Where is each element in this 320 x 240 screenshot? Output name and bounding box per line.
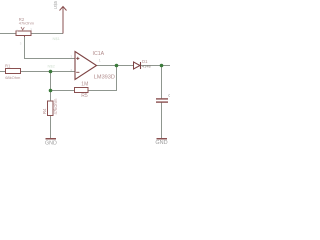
- svg-text:1M: 1M: [81, 82, 88, 88]
- svg-text:N$2: N$2: [48, 64, 56, 69]
- right ground symbol: [155, 138, 167, 146]
- R4 name label (rotated): [42, 108, 47, 114]
- resistor R1 body: [6, 69, 21, 74]
- svg-text:4148: 4148: [142, 63, 151, 68]
- svg-text:47kOhm: 47kOhm: [19, 21, 35, 26]
- svg-text:3: 3: [71, 55, 73, 59]
- op-amp pin 2 number: [71, 68, 73, 72]
- svg-text:N$1: N$1: [53, 36, 61, 41]
- diode D1: [134, 62, 141, 69]
- svg-text:1: 1: [99, 59, 101, 63]
- R1 value label 68kOhm: [5, 75, 21, 80]
- op-amp pin 3 number: [71, 55, 73, 59]
- svg-text:C6: C6: [168, 93, 170, 98]
- junction node at IN- / R1 / R5 net: [49, 70, 53, 74]
- R5 value label 1M: [81, 82, 88, 88]
- supply symbol U$5 (VCC arrow): [53, 0, 67, 33]
- wire: node down to R4 top terminal: [50, 91, 52, 102]
- junction node at R5/R4 tee: [49, 89, 53, 93]
- potentiometer R2 body: [16, 27, 31, 37]
- svg-text:3: 3: [30, 28, 32, 32]
- R2 pin 3 number: [30, 28, 32, 32]
- net label N$2 on IN- net: [48, 64, 56, 69]
- svg-text:U$5: U$5: [53, 0, 58, 9]
- R5 name label: [81, 93, 88, 99]
- IC1A value label LM393D: [94, 75, 115, 81]
- R4 value label 47kOhm (rotated): [53, 98, 58, 114]
- wire: vertical from IN- node down to R5/R4 node: [50, 72, 52, 91]
- IC1A name label: [93, 51, 105, 57]
- wire: op-amp output to diode anode: [97, 65, 134, 67]
- D1 name label: [142, 59, 148, 64]
- wire: R2 right terminal to VCC arrow: [31, 33, 63, 35]
- svg-text:R4: R4: [42, 108, 47, 114]
- op-amp IC1A triangle: [75, 52, 97, 80]
- wire: output node down to capacitor top plate: [161, 66, 163, 99]
- svg-text:47kOhm: 47kOhm: [53, 98, 58, 114]
- svg-text:IC1A: IC1A: [93, 51, 105, 57]
- capacitor name label (clipped at edge): [168, 93, 174, 98]
- svg-text:LM393D: LM393D: [94, 75, 115, 81]
- svg-text:R5: R5: [81, 93, 88, 99]
- op-amp output pin 1 number: [99, 59, 101, 63]
- net label N$1 on VCC wire: [53, 36, 61, 41]
- junction node at diode cathode / capacitor: [160, 64, 164, 68]
- svg-text:GND: GND: [45, 141, 57, 147]
- resistor R5 body: [75, 88, 89, 93]
- R2 wiper pin 2 number: [20, 42, 22, 46]
- R2 name label: [19, 17, 25, 22]
- wire: R2 wiper down then right to op-amp non-inverting input: [25, 36, 76, 59]
- wire: capacitor bottom plate down to right GND: [161, 103, 163, 139]
- svg-text:R1: R1: [5, 63, 11, 68]
- resistor R4 body (vertical): [48, 101, 54, 116]
- wire: node to R5 left terminal: [51, 90, 75, 92]
- R2 pin 1 number: [16, 29, 18, 33]
- svg-text:GND: GND: [155, 140, 167, 146]
- wire: left edge through R1 to op-amp inverting input: [0, 71, 75, 73]
- wire: left edge to R2 left terminal: [0, 33, 16, 35]
- wire: R5 right terminal right then up to output node (feedback): [88, 66, 117, 91]
- svg-text:3: 3: [20, 42, 22, 46]
- wire: R4 bottom terminal down to left GND: [50, 116, 52, 139]
- wire: diode cathode to right edge: [141, 65, 170, 67]
- D1 value label 4148: [142, 63, 151, 68]
- capacitor C bottom plate: [156, 101, 168, 102]
- svg-text:68kOhm: 68kOhm: [5, 75, 21, 80]
- R1 name label: [5, 63, 11, 68]
- left ground symbol: [45, 138, 57, 147]
- capacitor C top plate: [156, 98, 168, 99]
- R2 value label 47kOhm: [19, 21, 35, 26]
- junction node at op-amp output / feedback: [115, 64, 119, 68]
